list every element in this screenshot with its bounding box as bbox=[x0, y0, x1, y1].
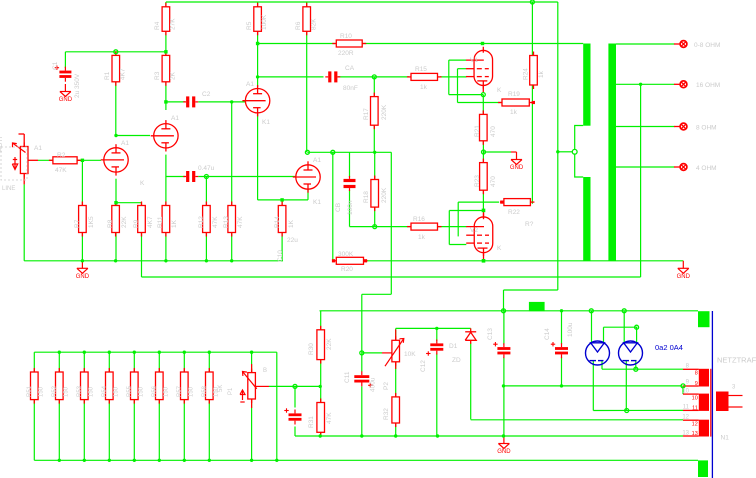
svg-text:47K: 47K bbox=[237, 216, 244, 228]
svg-text:NETZTRAFO: NETZTRAFO bbox=[717, 356, 756, 365]
svg-text:150: 150 bbox=[113, 386, 119, 397]
svg-text:R19: R19 bbox=[508, 91, 520, 98]
svg-text:R3: R3 bbox=[154, 71, 161, 80]
svg-text:P2: P2 bbox=[383, 382, 390, 390]
svg-text:V2: V2 bbox=[470, 227, 478, 234]
svg-text:C1: C1 bbox=[52, 61, 59, 70]
svg-text:100K: 100K bbox=[261, 14, 268, 30]
svg-text:4 OHM: 4 OHM bbox=[696, 165, 717, 172]
svg-text:R2: R2 bbox=[57, 152, 66, 159]
svg-text:13: 13 bbox=[692, 431, 698, 437]
svg-text:ZD: ZD bbox=[452, 357, 461, 364]
svg-text:C13: C13 bbox=[487, 328, 494, 340]
svg-text:400u: 400u bbox=[370, 377, 377, 392]
svg-text:150: 150 bbox=[188, 386, 194, 397]
svg-text:1k: 1k bbox=[420, 84, 428, 91]
svg-text:5K: 5K bbox=[218, 385, 224, 392]
svg-text:R22: R22 bbox=[508, 209, 520, 216]
svg-text:R8: R8 bbox=[107, 219, 114, 228]
svg-text:R57: R57 bbox=[177, 385, 183, 397]
svg-text:8: 8 bbox=[695, 371, 698, 377]
svg-text:0.47u: 0.47u bbox=[198, 165, 215, 172]
svg-text:N1: N1 bbox=[721, 435, 730, 442]
svg-text:R4: R4 bbox=[154, 21, 161, 30]
svg-text:9: 9 bbox=[695, 381, 698, 387]
svg-text:R52: R52 bbox=[52, 385, 58, 397]
svg-text:22K: 22K bbox=[121, 216, 128, 228]
svg-text:16 OHM: 16 OHM bbox=[696, 82, 720, 89]
svg-text:C12: C12 bbox=[420, 360, 427, 372]
svg-text:R9: R9 bbox=[133, 219, 140, 228]
svg-text:0-8 OHM: 0-8 OHM bbox=[694, 42, 720, 49]
svg-text:R56: R56 bbox=[152, 385, 158, 397]
svg-text:100u: 100u bbox=[567, 322, 574, 337]
svg-text:13: 13 bbox=[682, 431, 689, 437]
svg-text:22K: 22K bbox=[326, 338, 333, 350]
svg-text:A1: A1 bbox=[171, 115, 179, 122]
svg-text:K1: K1 bbox=[262, 119, 270, 126]
svg-text:R21: R21 bbox=[474, 125, 481, 137]
svg-text:10: 10 bbox=[682, 389, 689, 395]
svg-text:R13: R13 bbox=[223, 216, 230, 228]
svg-text:CB: CB bbox=[335, 203, 342, 212]
svg-text:R24: R24 bbox=[523, 68, 530, 80]
svg-text:GND: GND bbox=[59, 97, 73, 103]
svg-text:220K: 220K bbox=[381, 187, 388, 203]
svg-text:GND: GND bbox=[497, 449, 511, 455]
svg-text:10K: 10K bbox=[404, 351, 416, 358]
svg-text:CA: CA bbox=[345, 65, 355, 72]
svg-text:2K: 2K bbox=[170, 71, 177, 80]
svg-text:R11: R11 bbox=[157, 216, 164, 228]
svg-text:D1: D1 bbox=[449, 343, 458, 350]
svg-text:B: B bbox=[263, 368, 267, 374]
svg-text:R17: R17 bbox=[363, 108, 370, 120]
svg-text:R16: R16 bbox=[413, 216, 425, 223]
svg-text:K: K bbox=[497, 87, 502, 94]
svg-text:0a2 0A4: 0a2 0A4 bbox=[655, 343, 683, 352]
svg-text:4K7: 4K7 bbox=[147, 216, 154, 228]
svg-text:R10: R10 bbox=[340, 33, 352, 40]
svg-text:10: 10 bbox=[692, 396, 698, 402]
svg-text:A1: A1 bbox=[34, 145, 42, 152]
svg-text:R18: R18 bbox=[363, 191, 370, 203]
svg-text:K1: K1 bbox=[313, 199, 321, 206]
svg-text:POTI: POTI bbox=[0, 137, 4, 152]
svg-text:80nF: 80nF bbox=[343, 85, 358, 92]
svg-text:R53: R53 bbox=[77, 385, 83, 397]
svg-text:R14: R14 bbox=[274, 216, 281, 228]
svg-text:GND: GND bbox=[510, 165, 524, 171]
svg-text:470: 470 bbox=[490, 176, 497, 187]
svg-text:150: 150 bbox=[138, 386, 144, 397]
svg-text:1k: 1k bbox=[418, 234, 426, 241]
svg-text:11: 11 bbox=[692, 406, 698, 412]
svg-text:82K: 82K bbox=[311, 18, 318, 30]
svg-text:1K5: 1K5 bbox=[88, 216, 95, 228]
svg-text:GND: GND bbox=[677, 274, 691, 280]
svg-text:R23: R23 bbox=[474, 175, 481, 187]
svg-text:1k: 1k bbox=[510, 109, 518, 116]
svg-text:R51: R51 bbox=[27, 385, 33, 397]
svg-text:K: K bbox=[497, 245, 502, 252]
svg-text:LINE: LINE bbox=[2, 186, 15, 192]
svg-text:R30: R30 bbox=[308, 343, 315, 355]
svg-text:R32: R32 bbox=[383, 408, 390, 420]
svg-text:R58: R58 bbox=[202, 385, 208, 397]
svg-text:R54: R54 bbox=[102, 385, 108, 397]
svg-text:47K: 47K bbox=[326, 412, 333, 424]
svg-text:22u: 22u bbox=[287, 237, 298, 244]
svg-text:A1: A1 bbox=[313, 157, 321, 164]
svg-text:2u 350V: 2u 350V bbox=[74, 73, 81, 98]
svg-text:R6: R6 bbox=[295, 21, 302, 30]
svg-text:220K: 220K bbox=[381, 104, 388, 120]
svg-text:4K7: 4K7 bbox=[120, 68, 127, 80]
svg-text:C14: C14 bbox=[544, 328, 551, 340]
svg-text:A1: A1 bbox=[246, 81, 254, 88]
svg-text:K: K bbox=[140, 180, 145, 187]
svg-text:100n: 100n bbox=[347, 200, 354, 215]
svg-text:V1: V1 bbox=[470, 57, 478, 64]
svg-text:R1: R1 bbox=[104, 71, 111, 80]
svg-text:R15: R15 bbox=[415, 66, 427, 73]
svg-text:1K: 1K bbox=[171, 219, 178, 228]
svg-text:R31: R31 bbox=[308, 416, 315, 428]
svg-text:C11: C11 bbox=[344, 371, 351, 383]
svg-text:300K: 300K bbox=[338, 251, 354, 258]
svg-text:C10: C10 bbox=[277, 250, 284, 262]
svg-text:A1: A1 bbox=[121, 140, 129, 147]
svg-text:1k: 1k bbox=[538, 70, 545, 78]
svg-text:R7: R7 bbox=[74, 219, 81, 228]
svg-text:GND: GND bbox=[76, 274, 90, 280]
svg-text:12: 12 bbox=[682, 415, 689, 421]
svg-text:8 OHM: 8 OHM bbox=[696, 125, 717, 132]
svg-text:R5: R5 bbox=[246, 21, 253, 30]
svg-text:R20: R20 bbox=[341, 266, 353, 273]
svg-text:27K: 27K bbox=[170, 18, 177, 30]
svg-text:C2: C2 bbox=[202, 91, 211, 98]
svg-text:220R: 220R bbox=[338, 50, 354, 57]
svg-text:R?: R? bbox=[525, 221, 534, 228]
svg-text:R12: R12 bbox=[198, 216, 205, 228]
svg-text:1K: 1K bbox=[288, 219, 295, 228]
svg-text:47K: 47K bbox=[55, 167, 67, 174]
svg-text:P1: P1 bbox=[228, 387, 234, 395]
svg-text:150: 150 bbox=[88, 386, 94, 397]
svg-text:R55: R55 bbox=[127, 385, 133, 397]
svg-text:470: 470 bbox=[490, 126, 497, 137]
svg-text:11: 11 bbox=[683, 405, 690, 411]
svg-text:150: 150 bbox=[38, 386, 44, 397]
svg-text:12: 12 bbox=[692, 422, 698, 428]
svg-text:150: 150 bbox=[163, 386, 169, 397]
svg-text:150: 150 bbox=[63, 386, 69, 397]
svg-text:47K: 47K bbox=[212, 216, 219, 228]
